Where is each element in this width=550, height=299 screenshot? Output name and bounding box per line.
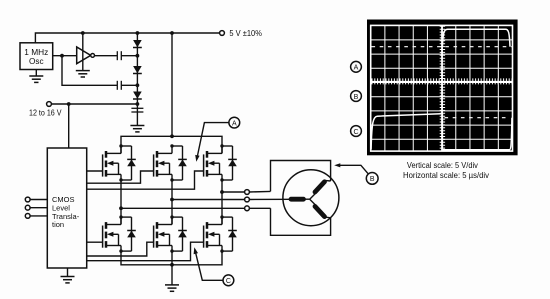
- svg-text:Osc: Osc: [29, 57, 44, 66]
- svg-text:B: B: [354, 94, 359, 101]
- svg-text:Horizontal scale: 5 µs/div: Horizontal scale: 5 µs/div: [403, 170, 490, 180]
- svg-text:C: C: [226, 278, 231, 285]
- svg-text:A: A: [354, 65, 359, 72]
- svg-text:Vertical scale: 5 V/div: Vertical scale: 5 V/div: [407, 160, 479, 170]
- svg-text:tion: tion: [52, 220, 64, 229]
- svg-text:B: B: [370, 176, 375, 183]
- svg-text:C: C: [353, 129, 358, 136]
- svg-text:12 to 16 V: 12 to 16 V: [29, 109, 62, 118]
- svg-text:1 MHz: 1 MHz: [24, 48, 48, 57]
- svg-text:A: A: [232, 120, 237, 127]
- svg-text:5 V ±10%: 5 V ±10%: [229, 29, 262, 38]
